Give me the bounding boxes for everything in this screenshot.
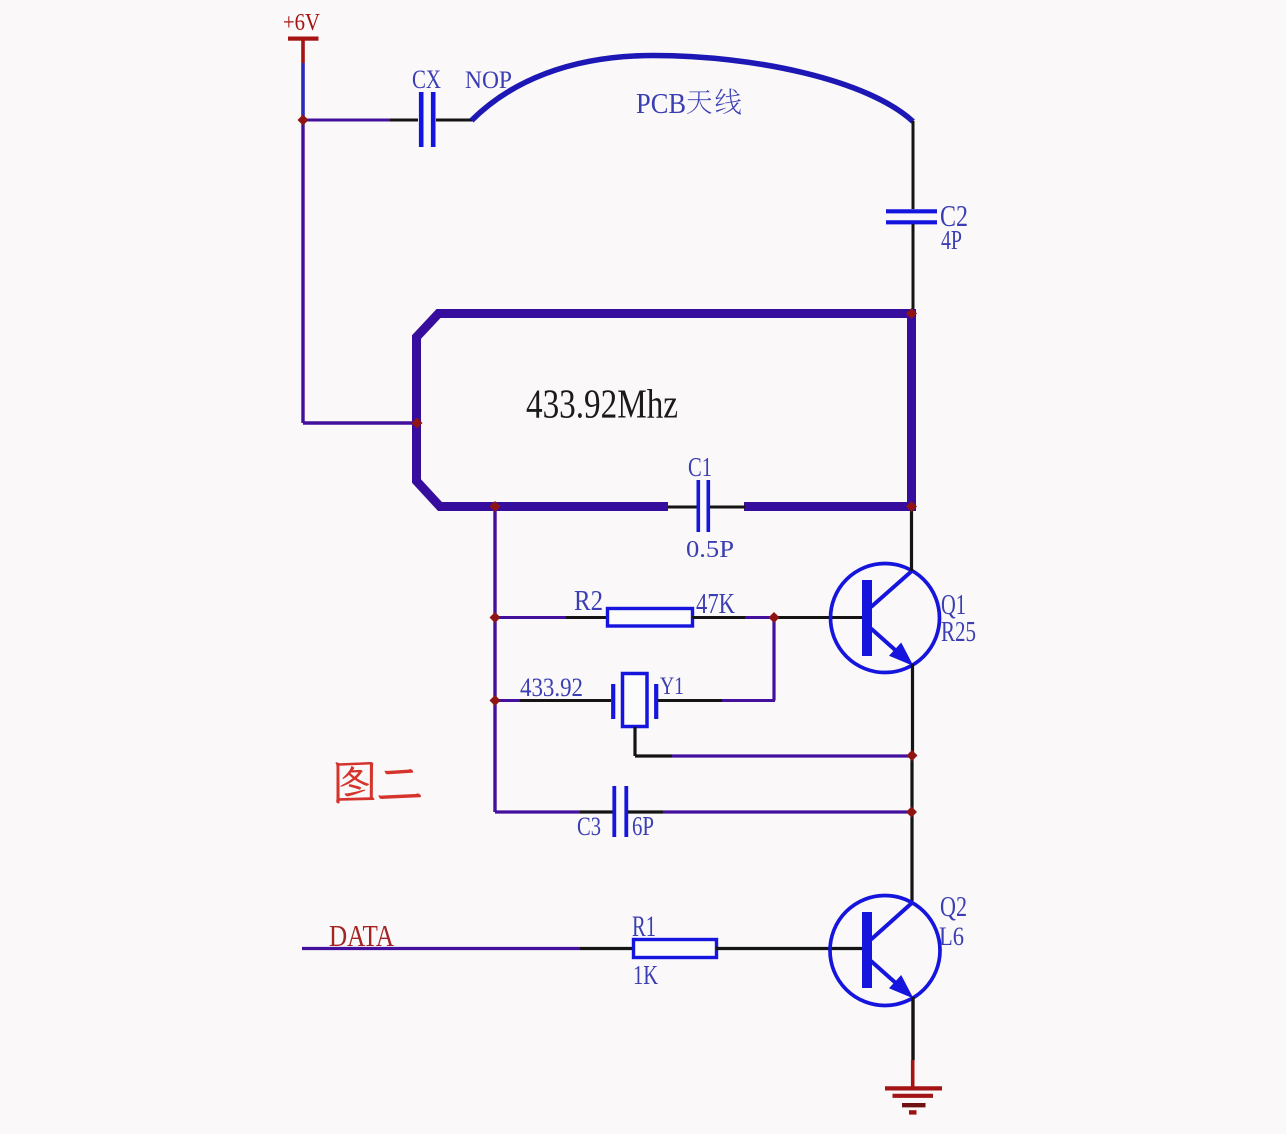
transistor Q2 base bar: [862, 912, 872, 988]
wire C1 right lead: [710, 506, 745, 509]
svg-text:L6: L6: [939, 922, 964, 951]
transistor Q2 collector: [871, 902, 914, 940]
capacitor CX: [419, 92, 424, 147]
capacitor C1: [696, 480, 700, 532]
svg-text:Y1: Y1: [660, 673, 684, 700]
wire R2 node down to Y1: [772, 618, 775, 701]
wire DATA: [302, 947, 580, 950]
transistor Q1 base bar: [862, 580, 872, 656]
svg-text:PCB: PCB: [636, 88, 686, 120]
wire C3 right: [628, 810, 663, 813]
transistor Q1 emitter: [871, 629, 898, 653]
svg-text:R1: R1: [632, 910, 656, 943]
wire left column: [493, 507, 496, 813]
wire left column to Y1: [495, 699, 520, 702]
wire Q1 collector up: [910, 507, 913, 571]
wire Q1 emitter down: [911, 664, 914, 756]
label 图二 (figure 2): [336, 762, 422, 804]
transistor Q2 emitter: [871, 961, 898, 985]
capacitor C3: [612, 786, 616, 837]
wire left column to C3: [495, 810, 580, 813]
svg-text:4P: 4P: [941, 225, 962, 255]
svg-text:6P: 6P: [632, 811, 654, 841]
svg-text:CX: CX: [412, 65, 441, 94]
transistor Q1 circle: [831, 564, 940, 673]
label PCB天线: [636, 88, 741, 120]
resistor R2: [608, 609, 693, 627]
ground symbol: [885, 1060, 942, 1112]
wire node down to Q2: [910, 756, 913, 902]
wire top rail to CX: [302, 119, 391, 122]
svg-text:433.92Mhz: 433.92Mhz: [526, 381, 678, 427]
power +6V bar symbol: [288, 37, 319, 41]
wire C2 to loop: [912, 224, 915, 311]
svg-text:C3: C3: [577, 812, 601, 841]
svg-text:Q2: Q2: [940, 891, 967, 923]
wire Y1 right to node: [658, 699, 722, 702]
svg-text:47K: 47K: [696, 588, 735, 620]
wire CX to antenna: [436, 119, 472, 122]
PCB antenna arc: [472, 56, 914, 122]
svg-text:1K: 1K: [633, 960, 658, 990]
transistor Q2 circle: [830, 896, 940, 1006]
wire antenna to C2: [912, 121, 915, 209]
wire +6V stem: [301, 63, 305, 121]
svg-text:R25: R25: [941, 617, 976, 648]
wire loop to R2: [495, 616, 566, 619]
wire R1 to Q2 base: [716, 947, 863, 950]
svg-text:0.5P: 0.5P: [686, 537, 734, 563]
wire R2 to Q1 base: [692, 616, 745, 619]
transistor Q1 collector: [871, 570, 914, 608]
svg-text:R2: R2: [574, 585, 603, 617]
wire +6V rail to loop: [303, 421, 414, 424]
crystal Y1: [613, 674, 656, 727]
inductor loop 433.92Mhz: [417, 314, 912, 507]
svg-text:+6V: +6V: [283, 10, 321, 36]
resistor R1: [634, 940, 717, 958]
wire Y1 bottom pin: [633, 727, 636, 756]
svg-text:433.92: 433.92: [520, 673, 583, 702]
svg-text:C1: C1: [688, 452, 712, 482]
svg-text:NOP: NOP: [465, 67, 512, 94]
wire +6V rail down: [301, 120, 304, 423]
wire C1 left lead: [668, 506, 697, 509]
capacitor C2: [886, 209, 937, 213]
wire Q2 emitter to ground: [911, 997, 914, 1060]
